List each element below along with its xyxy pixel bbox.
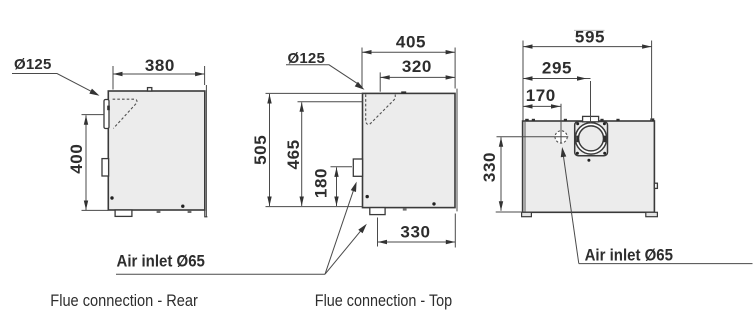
dashed internal flue duct (middle figure) — [366, 94, 396, 124]
air inlet leader arrow (right figure) — [561, 147, 567, 157]
dimension 505 top extension (long, to box top-left) — [266, 92, 363, 94]
svg-text:400: 400 — [67, 144, 86, 174]
screw dot lower (middle figure) — [432, 202, 435, 205]
dimension 505 line — [269, 94, 271, 206]
dimension 180 arrow bottom — [334, 197, 338, 207]
svg-text:Ø125: Ø125 — [288, 50, 326, 67]
dimension 170 extension right (to air inlet center) — [560, 104, 562, 144]
dimension 295 arrow left — [523, 76, 533, 80]
flue collar plate (right figure) — [575, 122, 608, 156]
rear fitting / air inlet rear (middle figure) — [353, 159, 362, 176]
dimension 595 arrow left — [523, 44, 533, 48]
svg-text:Air inlet Ø65: Air inlet Ø65 — [117, 253, 206, 271]
dimension 180 line — [336, 167, 338, 206]
label O125 arrowhead (left figure) — [89, 89, 99, 96]
svg-text:Flue connection - Rear: Flue connection - Rear — [50, 292, 198, 310]
dimension 330 line (middle figure) — [378, 241, 456, 243]
dimension 330 extension left (middle figure) — [377, 218, 379, 247]
dimension 380 arrow right — [195, 72, 205, 76]
dimension 405 extension left — [361, 48, 363, 89]
air inlet dashed circle (right figure) — [555, 131, 567, 143]
dimension 170 arrow left — [523, 104, 533, 108]
dimension 465 line — [301, 102, 303, 206]
dimension 380 arrow left — [113, 72, 123, 76]
dimension 400 line — [85, 115, 87, 210]
dimension 330 line (right figure) — [500, 137, 502, 211]
dashed internal flue duct (left figure) — [113, 99, 137, 128]
dimension 595 line — [523, 46, 652, 48]
dimension 465 arrow bottom — [300, 197, 304, 207]
bottom nub 2 (left figure) — [188, 211, 192, 213]
dimension 405 arrow right — [446, 50, 456, 54]
dimension 320 arrow right — [446, 75, 456, 79]
top edge tick 1 — [525, 119, 529, 121]
dimension 330 arrow top (right figure) — [499, 137, 503, 147]
right edge hinge nub (right figure) — [654, 183, 657, 188]
dimension 405 arrow left — [362, 50, 372, 54]
screw dot below collar — [587, 159, 590, 162]
air inlet label left underline — [116, 273, 325, 275]
flue inner circle (right figure) — [579, 126, 604, 151]
top bump fitting (left figure) — [148, 88, 152, 91]
dimension 505/465/180 bottom extension — [266, 206, 363, 208]
flue side clip right — [603, 136, 606, 143]
air inlet leader to rear fitting (middle figure) — [325, 187, 355, 274]
air inlet leader (right figure) — [562, 149, 578, 264]
svg-text:Ø125: Ø125 — [14, 56, 52, 73]
dark bracket tick on left edge (left figure) — [107, 106, 110, 111]
dimension 295 arrow right — [577, 76, 587, 80]
svg-text:595: 595 — [575, 27, 605, 46]
flue outer circle (right figure) — [575, 123, 606, 154]
svg-text:Air inlet Ø65: Air inlet Ø65 — [585, 247, 674, 265]
top edge tick 2 — [532, 119, 535, 121]
flue side clip left — [576, 136, 579, 143]
svg-text:180: 180 — [312, 168, 331, 198]
dimension 330 top extension (right figure, through air inlet) — [497, 136, 569, 138]
faint guide line above 595 — [574, 29, 605, 31]
boiler body (left figure) — [108, 91, 205, 210]
boiler body top view (right figure) — [523, 121, 655, 212]
dimension 380 extension right — [204, 66, 206, 85]
collar bolt top-left — [576, 122, 579, 125]
dimension 330 extension right (middle figure) — [454, 214, 456, 248]
air inlet label right underline — [579, 263, 753, 265]
dimension 170 arrow right — [551, 104, 561, 108]
air inlet leader arrow to rear fitting — [351, 182, 357, 192]
svg-text:330: 330 — [480, 152, 499, 182]
svg-text:330: 330 — [400, 222, 430, 241]
bottom nub 1 (left figure) — [157, 211, 161, 213]
flue collar tab (right figure) — [583, 116, 599, 121]
top edge tick 4 — [600, 119, 603, 121]
collar bolt bottom-right — [603, 152, 606, 155]
label O125 leader (left figure) — [12, 74, 96, 94]
dimension 330 arrow right (middle figure) — [446, 240, 456, 244]
dimension 400 arrow top — [84, 115, 88, 125]
dimension 595 extension right — [651, 41, 653, 122]
svg-text:405: 405 — [396, 33, 426, 52]
screw dot upper (left figure) — [110, 196, 113, 199]
svg-text:170: 170 — [526, 86, 556, 105]
dimension 330 arrow bottom (right figure) — [499, 201, 503, 211]
dimension 465 top extension — [298, 101, 363, 103]
air inlet leader to bottom foot (middle figure) — [325, 229, 362, 274]
front panel bottom hook (left figure) — [205, 210, 208, 217]
dimension 405 line — [362, 51, 455, 53]
dimension 465 arrow top — [300, 102, 304, 112]
dimension 320 extension left — [379, 72, 381, 91]
front panel lip (left figure right edge) — [205, 85, 207, 217]
bottom right foot (right figure) — [646, 212, 658, 216]
svg-text:320: 320 — [402, 57, 432, 76]
bottom left foot (right figure) — [522, 212, 532, 216]
dimension 400 extension top — [82, 114, 105, 116]
dimension 170 line — [523, 105, 561, 107]
bottom foot / air inlet (left figure) — [115, 210, 132, 216]
screw dot upper (middle figure) — [366, 195, 369, 198]
svg-text:295: 295 — [542, 59, 572, 78]
top right corner clip — [650, 118, 654, 121]
inner left wall line (right figure) — [524, 122, 526, 213]
svg-text:505: 505 — [251, 135, 270, 165]
boiler body (middle figure) — [363, 93, 456, 207]
front panel lip (middle figure) — [456, 89, 458, 212]
dimension 505 arrow top — [267, 94, 271, 104]
label O125 leader (middle figure) — [286, 65, 361, 86]
collar bolt top-right — [603, 122, 606, 125]
rear fitting (left figure) — [102, 159, 109, 176]
bottom foot / air inlet bottom (middle figure) — [370, 208, 385, 215]
dimension 180 top extension — [331, 166, 353, 168]
label O125 arrowhead (middle figure) — [355, 82, 365, 90]
dimension 180 arrow top — [334, 167, 338, 177]
air inlet leader arrow to bottom foot — [358, 224, 367, 233]
flue spigot rear (left figure) — [104, 100, 109, 129]
dimension 320 arrow left — [380, 75, 390, 79]
svg-text:380: 380 — [145, 56, 175, 75]
svg-text:465: 465 — [284, 139, 303, 169]
dimension 295 line — [523, 78, 591, 80]
dimension 595/295/170 extension left (long) — [522, 41, 524, 122]
dimension 295 extension right (to flue center) — [590, 81, 592, 123]
top edge tick 3 — [564, 119, 567, 121]
dimension 505 arrow bottom — [267, 197, 271, 207]
bottom nub (middle figure) — [403, 208, 407, 210]
dimension 330 bottom extension (right figure) — [496, 211, 523, 213]
dimension 380 line — [113, 73, 205, 75]
dimension 320 line — [380, 76, 455, 78]
svg-text:Flue connection - Top: Flue connection - Top — [315, 292, 453, 310]
dimension 400 extension bottom — [82, 209, 109, 211]
screw dot lower (left figure) — [181, 205, 184, 208]
dimension 380 extension left — [112, 66, 114, 90]
dimension 400 arrow bottom — [84, 201, 88, 211]
top edge tick 5 — [616, 119, 619, 121]
dimension 405/320 extension right — [454, 48, 456, 89]
collar bolt bottom-left — [576, 152, 579, 155]
dimension 595 arrow right — [642, 44, 652, 48]
dimension 330 arrow left (middle figure) — [378, 240, 388, 244]
top tick (middle figure) — [401, 91, 406, 93]
